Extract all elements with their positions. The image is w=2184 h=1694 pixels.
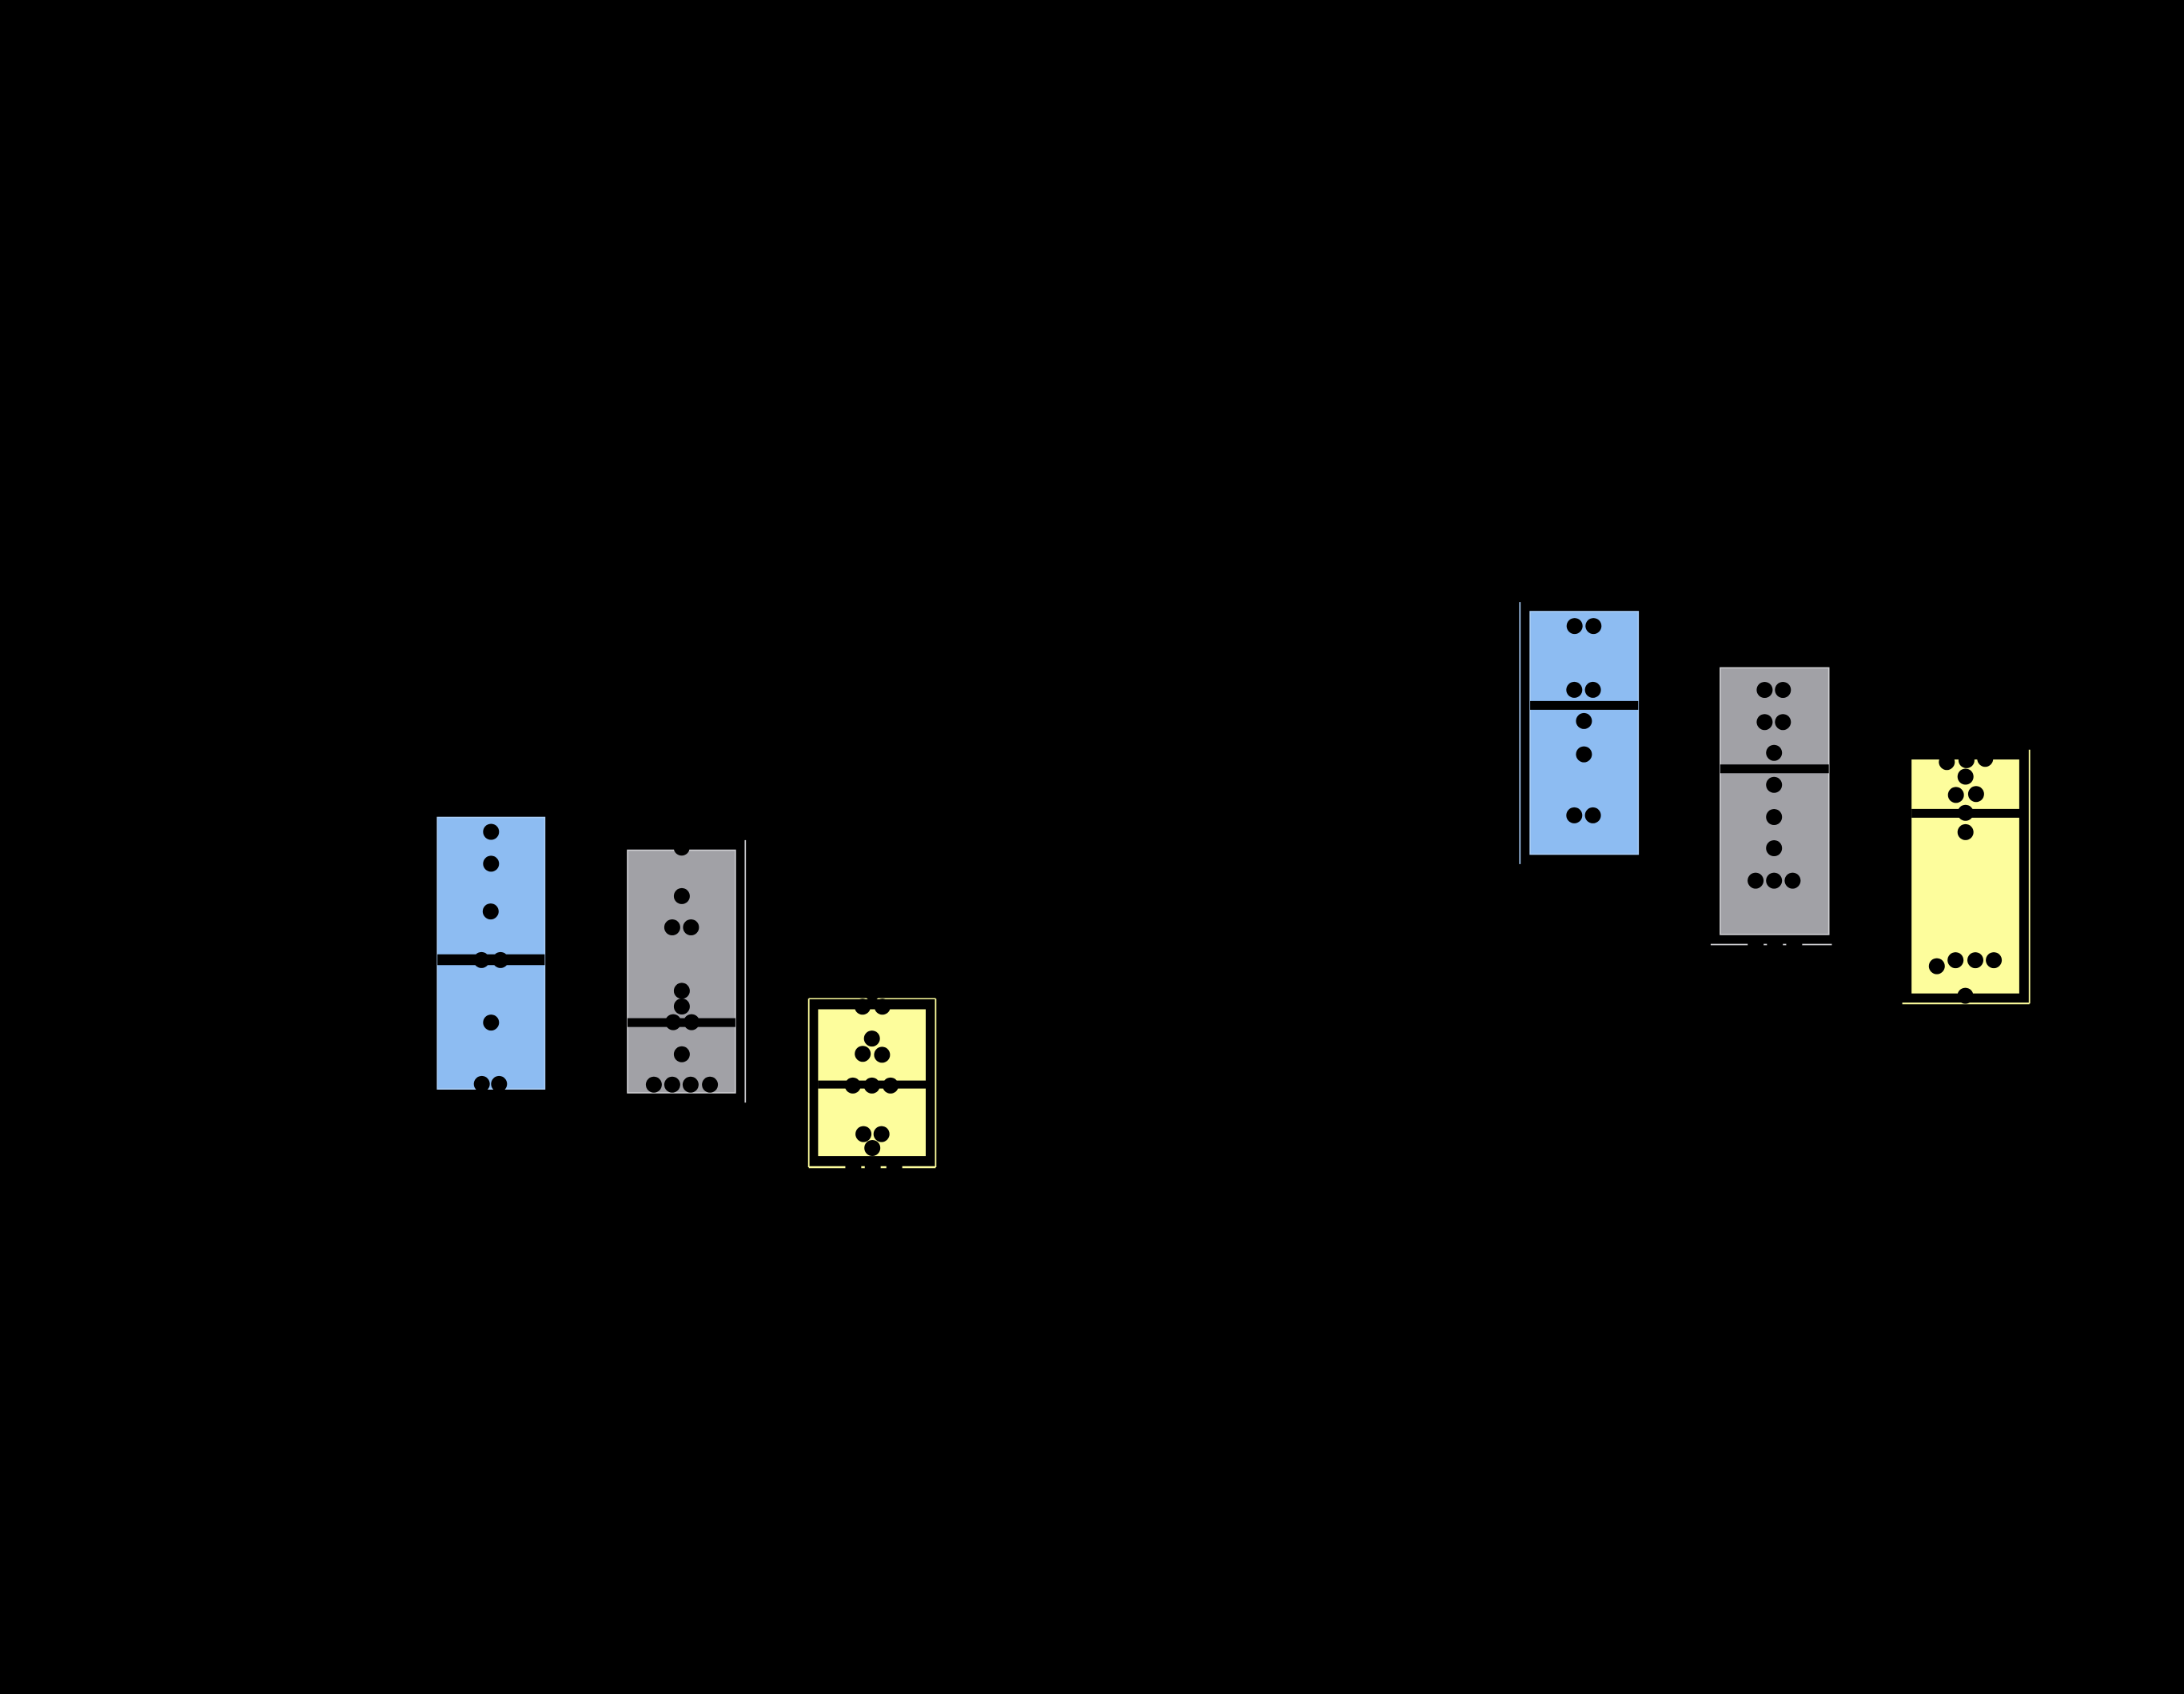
median gray right <box>1720 764 1829 773</box>
outline line yellow right bottom <box>1903 1002 2030 1004</box>
right panel: blue box group <box>1520 602 1638 864</box>
box gray right fill <box>1720 668 1829 935</box>
median yellow left <box>818 1081 926 1089</box>
box blue left fill <box>437 818 544 1090</box>
box yellow left fill <box>818 1010 926 1157</box>
outline line blue right <box>1519 602 1520 864</box>
dots gray left <box>646 839 718 1093</box>
outline yellow left: right side <box>935 998 936 1167</box>
box blue right fill <box>1530 612 1638 855</box>
median gray left <box>628 1018 735 1027</box>
right panel: gray box group <box>1711 668 1832 952</box>
outline yellow left: bottom side <box>809 1166 936 1169</box>
outline line yellow right vertical <box>2029 750 2031 1003</box>
median blue right <box>1530 701 1638 710</box>
dots yellow left <box>845 985 903 1176</box>
outline rect yellow left <box>809 998 936 999</box>
outline line gray left <box>744 840 746 1102</box>
box gray left fill <box>628 851 735 1094</box>
left panel: gray box group <box>628 839 745 1102</box>
dots blue left <box>473 824 508 1092</box>
right panel: yellow box group <box>1903 750 2030 1004</box>
median yellow right <box>1911 809 2019 818</box>
dots gray right <box>1748 682 1802 953</box>
left panel: yellow box group <box>809 985 936 1176</box>
median blue left <box>437 955 544 966</box>
dots yellow right <box>1929 751 2002 1003</box>
dots blue right <box>1566 618 1601 823</box>
outline line gray right <box>1711 944 1832 946</box>
box yellow right fill <box>1911 759 2019 994</box>
left panel: blue box group <box>437 818 544 1092</box>
outline yellow left: left side <box>808 998 810 1167</box>
